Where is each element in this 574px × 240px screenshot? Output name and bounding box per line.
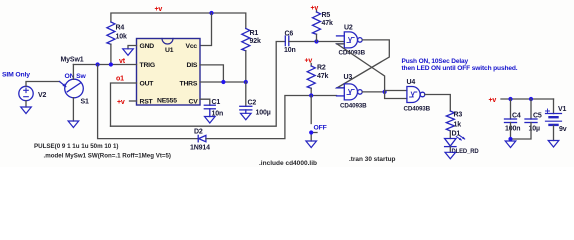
svg-text:NE555: NE555 — [157, 98, 177, 105]
wire OFF lower stub — [311, 133, 317, 142]
svg-text:Push ON, 10Sec Delay: Push ON, 10Sec Delay — [402, 58, 469, 65]
svg-text:OFF: OFF — [314, 125, 327, 132]
wire C6 to U2 input — [289, 41, 345, 43]
LED D1 — [445, 136, 466, 147]
resistor R4 — [107, 22, 115, 44]
svg-text:.tran 30 startup: .tran 30 startup — [349, 156, 396, 163]
wire Vcc riser to pin Vcc — [200, 13, 212, 46]
svg-text:+v: +v — [155, 6, 163, 13]
ground at U1 GND — [123, 49, 134, 56]
svg-text:47k: 47k — [322, 20, 333, 27]
ground below C2 — [241, 113, 252, 120]
wire o1 loop: down, right, up to C6 — [111, 42, 286, 127]
svg-text:+v: +v — [117, 99, 125, 106]
wire RST stub — [130, 100, 137, 102]
transistor-like switch S1 (voltage controlled) — [65, 79, 84, 98]
capacitor C2 — [240, 106, 252, 113]
wire power rail — [501, 98, 554, 100]
wire CV stub to C1 — [200, 99, 210, 105]
svg-text:U3: U3 — [344, 74, 353, 81]
junction OFF stub — [309, 130, 313, 134]
svg-text:GND: GND — [140, 43, 155, 50]
svg-text:+v: +v — [311, 5, 319, 12]
svg-text:R4: R4 — [116, 25, 125, 32]
junction top rail / Vcc riser — [209, 11, 213, 15]
junction U3 out — [383, 90, 387, 94]
wire switch bottom — [72, 98, 74, 121]
ground below S1 — [68, 121, 79, 128]
wire U3 output to junction — [362, 91, 384, 93]
junction DIS/THRS — [221, 80, 225, 84]
svg-text:TRIG: TRIG — [140, 62, 155, 69]
svg-text:CD4093B: CD4093B — [340, 103, 367, 110]
svg-text:47k: 47k — [317, 73, 328, 80]
svg-text:C6: C6 — [285, 31, 294, 38]
junction TRIG/D2 branch — [96, 62, 100, 66]
ground below V1 — [548, 141, 559, 148]
junction C6/R5 — [314, 39, 318, 43]
svg-text:R2: R2 — [317, 65, 326, 72]
wire D2 to latch reset node — [206, 96, 337, 139]
wire R5 top — [316, 11, 318, 13]
ground below C1 — [205, 117, 216, 124]
op-amp U2 NAND CD4093B — [337, 32, 363, 48]
svg-text:D2: D2 — [194, 129, 203, 136]
svg-text:CD4093B: CD4093B — [404, 106, 431, 113]
svg-text:+v: +v — [489, 97, 497, 104]
wire D1 to ground — [449, 147, 451, 153]
svg-text:U2: U2 — [344, 25, 353, 32]
resistor R5 — [313, 12, 321, 34]
svg-text:U4: U4 — [407, 79, 416, 86]
wire caps bottoms join — [511, 123, 532, 140]
junction R2/reset net — [309, 93, 313, 97]
wire R4 bottom to TRIG line — [110, 44, 112, 64]
svg-text:D1: D1 — [452, 131, 461, 138]
switch S1 control arrow — [60, 82, 66, 87]
wire C5 drop — [530, 99, 532, 119]
diode D2 — [198, 135, 206, 141]
op-amp U3 NAND CD4093B — [337, 84, 363, 100]
battery V1 — [546, 109, 562, 125]
svg-text:.include cd4000.lib: .include cd4000.lib — [259, 160, 317, 167]
capacitor C6 — [285, 36, 289, 46]
svg-text:DLED_RD: DLED_RD — [452, 148, 479, 155]
svg-text:1k: 1k — [454, 122, 462, 129]
capacitor C1 — [204, 105, 215, 116]
ground below D1 — [445, 152, 456, 159]
ground below C4/C5 — [505, 141, 516, 148]
wire C2 drop from THRS — [245, 82, 247, 106]
svg-text:THRS: THRS — [180, 81, 198, 88]
op-amp U1 555 timer body — [137, 39, 201, 106]
junction C5 — [529, 97, 533, 101]
svg-text:OUT: OUT — [140, 81, 155, 88]
wire U2 output cross to U3 input — [337, 40, 389, 88]
wire U4 out to R3 — [425, 95, 451, 112]
wire R1 bottom to THRS node — [245, 51, 247, 82]
wire THRS line — [200, 81, 246, 83]
svg-text:V2: V2 — [38, 92, 47, 99]
svg-text:100n: 100n — [505, 126, 520, 133]
capacitor C5 — [525, 119, 537, 123]
svg-text:PULSE(0 9 1 1u 1u 50m 10 1): PULSE(0 9 1 1u 1u 50m 10 1) — [34, 143, 119, 150]
capacitor C4 — [505, 119, 517, 123]
wire V2 bottom — [25, 101, 27, 107]
wire top rail +v from R4 to R1 — [111, 13, 246, 29]
junction ground join — [508, 137, 512, 141]
svg-text:92k: 92k — [250, 38, 261, 45]
junction C4 — [508, 97, 512, 101]
svg-text:R1: R1 — [250, 30, 259, 37]
wire R2 bottom to reset net — [310, 88, 312, 95]
junction THRS/R1/C2 — [244, 80, 248, 84]
resistor R3 — [446, 111, 454, 131]
svg-text:1N914: 1N914 — [190, 145, 210, 152]
svg-text:10k: 10k — [116, 34, 127, 41]
svg-text:S1: S1 — [81, 99, 90, 106]
wire V1 drop — [553, 99, 555, 114]
svg-text:R5: R5 — [322, 12, 331, 19]
svg-text:CV: CV — [189, 99, 199, 106]
svg-text:vt: vt — [119, 58, 126, 65]
svg-text:DIS: DIS — [187, 62, 198, 69]
wire R2 top — [310, 64, 312, 67]
voltage source V2 — [19, 86, 33, 100]
svg-text:Vcc: Vcc — [186, 43, 198, 50]
wire switch top to TRIG — [72, 65, 74, 80]
wire R5 bottom to C6 net — [316, 34, 318, 41]
notch of U1 — [162, 39, 173, 45]
svg-text:SIM Only: SIM Only — [2, 72, 30, 79]
svg-text:RST: RST — [140, 99, 154, 106]
resistor R1 — [242, 29, 250, 51]
wire V1 bottom — [553, 126, 555, 141]
svg-text:MySw1: MySw1 — [61, 57, 84, 64]
op-amp U4 NAND CD4093B — [407, 87, 425, 103]
wire GND pin stub — [128, 46, 137, 49]
wire DIS to THRS — [200, 65, 223, 82]
svg-text:.model MySw1 SW(Ron=.1 Roff=1: .model MySw1 SW(Ron=.1 Roff=1Meg Vt=5) — [44, 153, 172, 160]
wire OUT stub — [111, 83, 137, 126]
wire U3 cross feedback to U2 input — [337, 44, 385, 92]
svg-text:CD4093B: CD4093B — [339, 50, 366, 57]
wire C4 drop — [510, 99, 512, 119]
svg-text:C5: C5 — [533, 113, 542, 120]
svg-text:9v: 9v — [559, 126, 567, 133]
wire vt branch down to D2 line — [98, 65, 199, 139]
svg-text:V1: V1 — [558, 106, 567, 113]
svg-text:C4: C4 — [512, 113, 521, 120]
svg-text:100µ: 100µ — [256, 110, 271, 117]
svg-text:C1: C1 — [212, 99, 221, 106]
wire R3 to D1 — [449, 131, 451, 139]
svg-text:10n: 10n — [284, 47, 296, 54]
junction TRIG/R4 — [109, 62, 113, 66]
svg-text:then LED ON until OFF switch p: then LED ON until OFF switch pushed. — [402, 65, 518, 72]
svg-text:ON Sw: ON Sw — [65, 73, 87, 80]
resistor R2 — [307, 66, 315, 88]
svg-text:R3: R3 — [454, 112, 463, 119]
wire OFF stub (open) — [310, 96, 312, 124]
ground below V2 — [21, 107, 32, 114]
svg-text:10µ: 10µ — [529, 126, 540, 133]
wire V2 top to switch arrow — [26, 82, 60, 87]
wire TRIG line — [73, 64, 136, 66]
wire U3 out to U4 inputs fork — [385, 91, 407, 92]
switch S1 lever — [67, 83, 81, 92]
svg-text:o1: o1 — [116, 76, 124, 83]
svg-text:U1: U1 — [165, 47, 174, 54]
ground below OFF — [306, 141, 317, 148]
svg-text:C2: C2 — [248, 100, 257, 107]
